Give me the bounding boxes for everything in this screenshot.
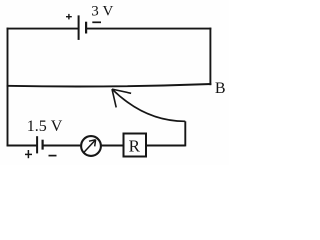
resistor R box bbox=[124, 134, 147, 157]
minus sign of 1.5V battery bbox=[49, 155, 57, 157]
wire right vertical bbox=[209, 28, 211, 86]
svg-text:3 V: 3 V bbox=[91, 4, 113, 20]
minus sign of 3V battery bbox=[92, 21, 101, 23]
wire top-right horizontal bbox=[86, 28, 211, 30]
plus sign of 3V battery bbox=[66, 14, 72, 20]
wire bottom-left horizontal bbox=[7, 145, 37, 147]
wire galvanometer to resistor R bbox=[101, 145, 124, 147]
battery 3V long plate (+) bbox=[78, 15, 80, 40]
wire resistor to right corner bbox=[146, 145, 185, 147]
jockey curved arrow shaft bbox=[112, 89, 185, 121]
wire battery to galvanometer bbox=[43, 145, 81, 147]
plus sign of 1.5V battery bbox=[25, 150, 32, 158]
wire left vertical bbox=[7, 28, 9, 147]
svg-text:R: R bbox=[129, 136, 141, 155]
battery 1.5V short plate (-) bbox=[41, 140, 43, 150]
battery 1.5V long plate (+) bbox=[36, 136, 38, 153]
svg-text:B: B bbox=[215, 80, 226, 97]
wire top-left horizontal bbox=[7, 28, 79, 30]
galvanometer needle bbox=[84, 140, 96, 153]
battery 3V short plate (-) bbox=[85, 22, 87, 34]
wire middle horizontal (potentiometer wire to B) bbox=[7, 84, 212, 86]
svg-text:1.5 V: 1.5 V bbox=[27, 118, 63, 135]
jockey arrowhead bbox=[112, 89, 131, 107]
wire right vertical of lower loop bbox=[184, 121, 186, 146]
galvanometer G body bbox=[81, 136, 101, 156]
